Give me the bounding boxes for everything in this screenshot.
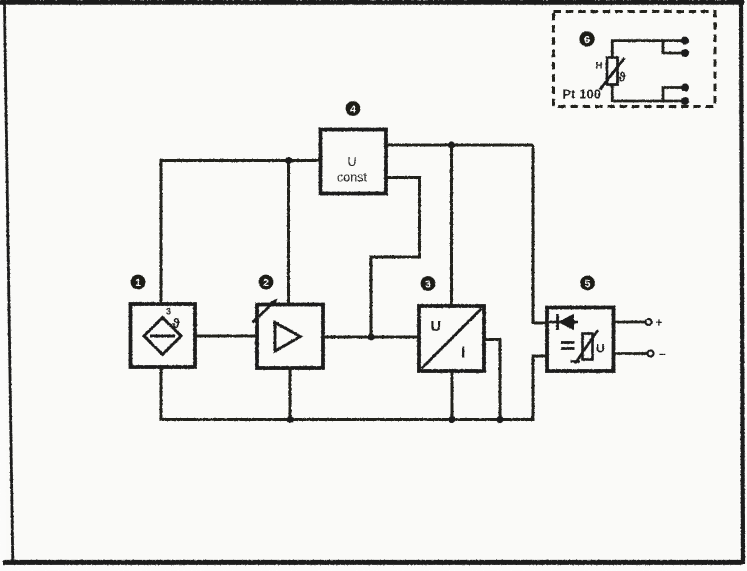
svg-text:ϑ: ϑ bbox=[172, 316, 180, 331]
wire block5 lower-left to bottom rail bbox=[533, 356, 548, 420]
wire vertical into block1 top bbox=[160, 159, 163, 304]
block U3 U/I converter box bbox=[419, 306, 484, 371]
wire RTD top second lead bbox=[663, 41, 684, 53]
svg-text:const: const bbox=[337, 171, 367, 185]
terminal minus bbox=[648, 351, 654, 357]
svg-text:1: 1 bbox=[135, 277, 141, 289]
wire block5 plus output bbox=[614, 321, 646, 324]
wire block5 minus output bbox=[614, 352, 648, 355]
marker circle 3 bbox=[421, 276, 436, 291]
junction node at top-left wire bbox=[285, 157, 292, 164]
marker circle 1 bbox=[131, 275, 146, 290]
marker circle 5 bbox=[580, 276, 595, 291]
block U5 protection circuit box bbox=[547, 308, 614, 372]
dashed box around Pt100 sensor bbox=[554, 12, 716, 107]
wire right rail down to block5 diode input bbox=[533, 145, 548, 323]
block U1 sensor bridge box bbox=[131, 304, 196, 367]
wire RTD bottom second lead bbox=[663, 88, 684, 102]
wire RTD top lead bbox=[612, 41, 684, 58]
svg-text:4: 4 bbox=[350, 103, 356, 115]
svg-text:U: U bbox=[431, 319, 441, 335]
wire block2 to block3 bbox=[323, 336, 419, 339]
wire vertical into block3 top bbox=[450, 145, 453, 306]
amplifier triangle bbox=[275, 323, 301, 352]
marker circle 4 bbox=[346, 101, 361, 116]
theta annotation in block 1 bbox=[166, 307, 180, 332]
svg-text:5: 5 bbox=[585, 278, 591, 290]
wire block1 to block2 bbox=[195, 335, 257, 338]
svg-text:–: – bbox=[659, 347, 666, 361]
svg-text:ϑ: ϑ bbox=[619, 71, 627, 85]
varistor RU in block 5 bbox=[571, 330, 599, 364]
wire block3 right output down to bottom rail bbox=[484, 340, 500, 420]
svg-text:U: U bbox=[347, 155, 356, 169]
svg-text:2: 2 bbox=[263, 277, 269, 289]
U/I diagonal bbox=[422, 309, 482, 369]
wire bottom rail bbox=[160, 418, 535, 421]
wire block1 bottom vertical bbox=[160, 367, 163, 421]
wire block4 lower output feedback path bbox=[371, 178, 420, 338]
junction node on block2-block3 wire bbox=[367, 333, 374, 340]
wire block4 upper output to right rail bbox=[386, 144, 533, 147]
wire top-left horizontal from block1 to block4 bbox=[160, 159, 321, 162]
svg-text:+: + bbox=[656, 316, 663, 330]
junction node block3 right at bottom rail bbox=[496, 416, 503, 423]
bridge diamond symbol bbox=[144, 318, 181, 355]
svg-text:I: I bbox=[461, 345, 465, 362]
wire block2 bottom vertical bbox=[289, 368, 292, 420]
terminal plus bbox=[646, 319, 652, 325]
resistor RTD Pt100 bbox=[600, 58, 625, 90]
approx marks in block 5 bbox=[561, 343, 575, 349]
svg-text:3: 3 bbox=[425, 278, 431, 290]
block U2 adjustable amplifier box bbox=[257, 305, 323, 369]
wire vertical into block2 top bbox=[287, 159, 290, 305]
svg-text:U: U bbox=[596, 342, 605, 356]
junction node block2 bottom bbox=[286, 416, 293, 423]
marker circle 6 bbox=[579, 31, 594, 46]
svg-text:3: 3 bbox=[166, 307, 171, 317]
marker circle 2 bbox=[259, 275, 274, 290]
svg-text:H: H bbox=[596, 61, 603, 72]
label U const bbox=[337, 155, 367, 185]
wire RTD bottom lead bbox=[612, 85, 684, 102]
wire block3 bottom vertical bbox=[451, 371, 454, 420]
svg-text:Pt 100: Pt 100 bbox=[563, 88, 602, 102]
svg-text:6: 6 bbox=[584, 34, 590, 46]
diode D1 in block 5 bbox=[549, 314, 578, 330]
adjustment arrow bbox=[253, 299, 278, 323]
terminal dots of Pt100 leads bbox=[681, 37, 689, 105]
junction node block3 bottom bbox=[448, 416, 455, 423]
block U4 constant voltage source box bbox=[321, 130, 387, 194]
junction node on block4 upper output bbox=[448, 141, 455, 148]
